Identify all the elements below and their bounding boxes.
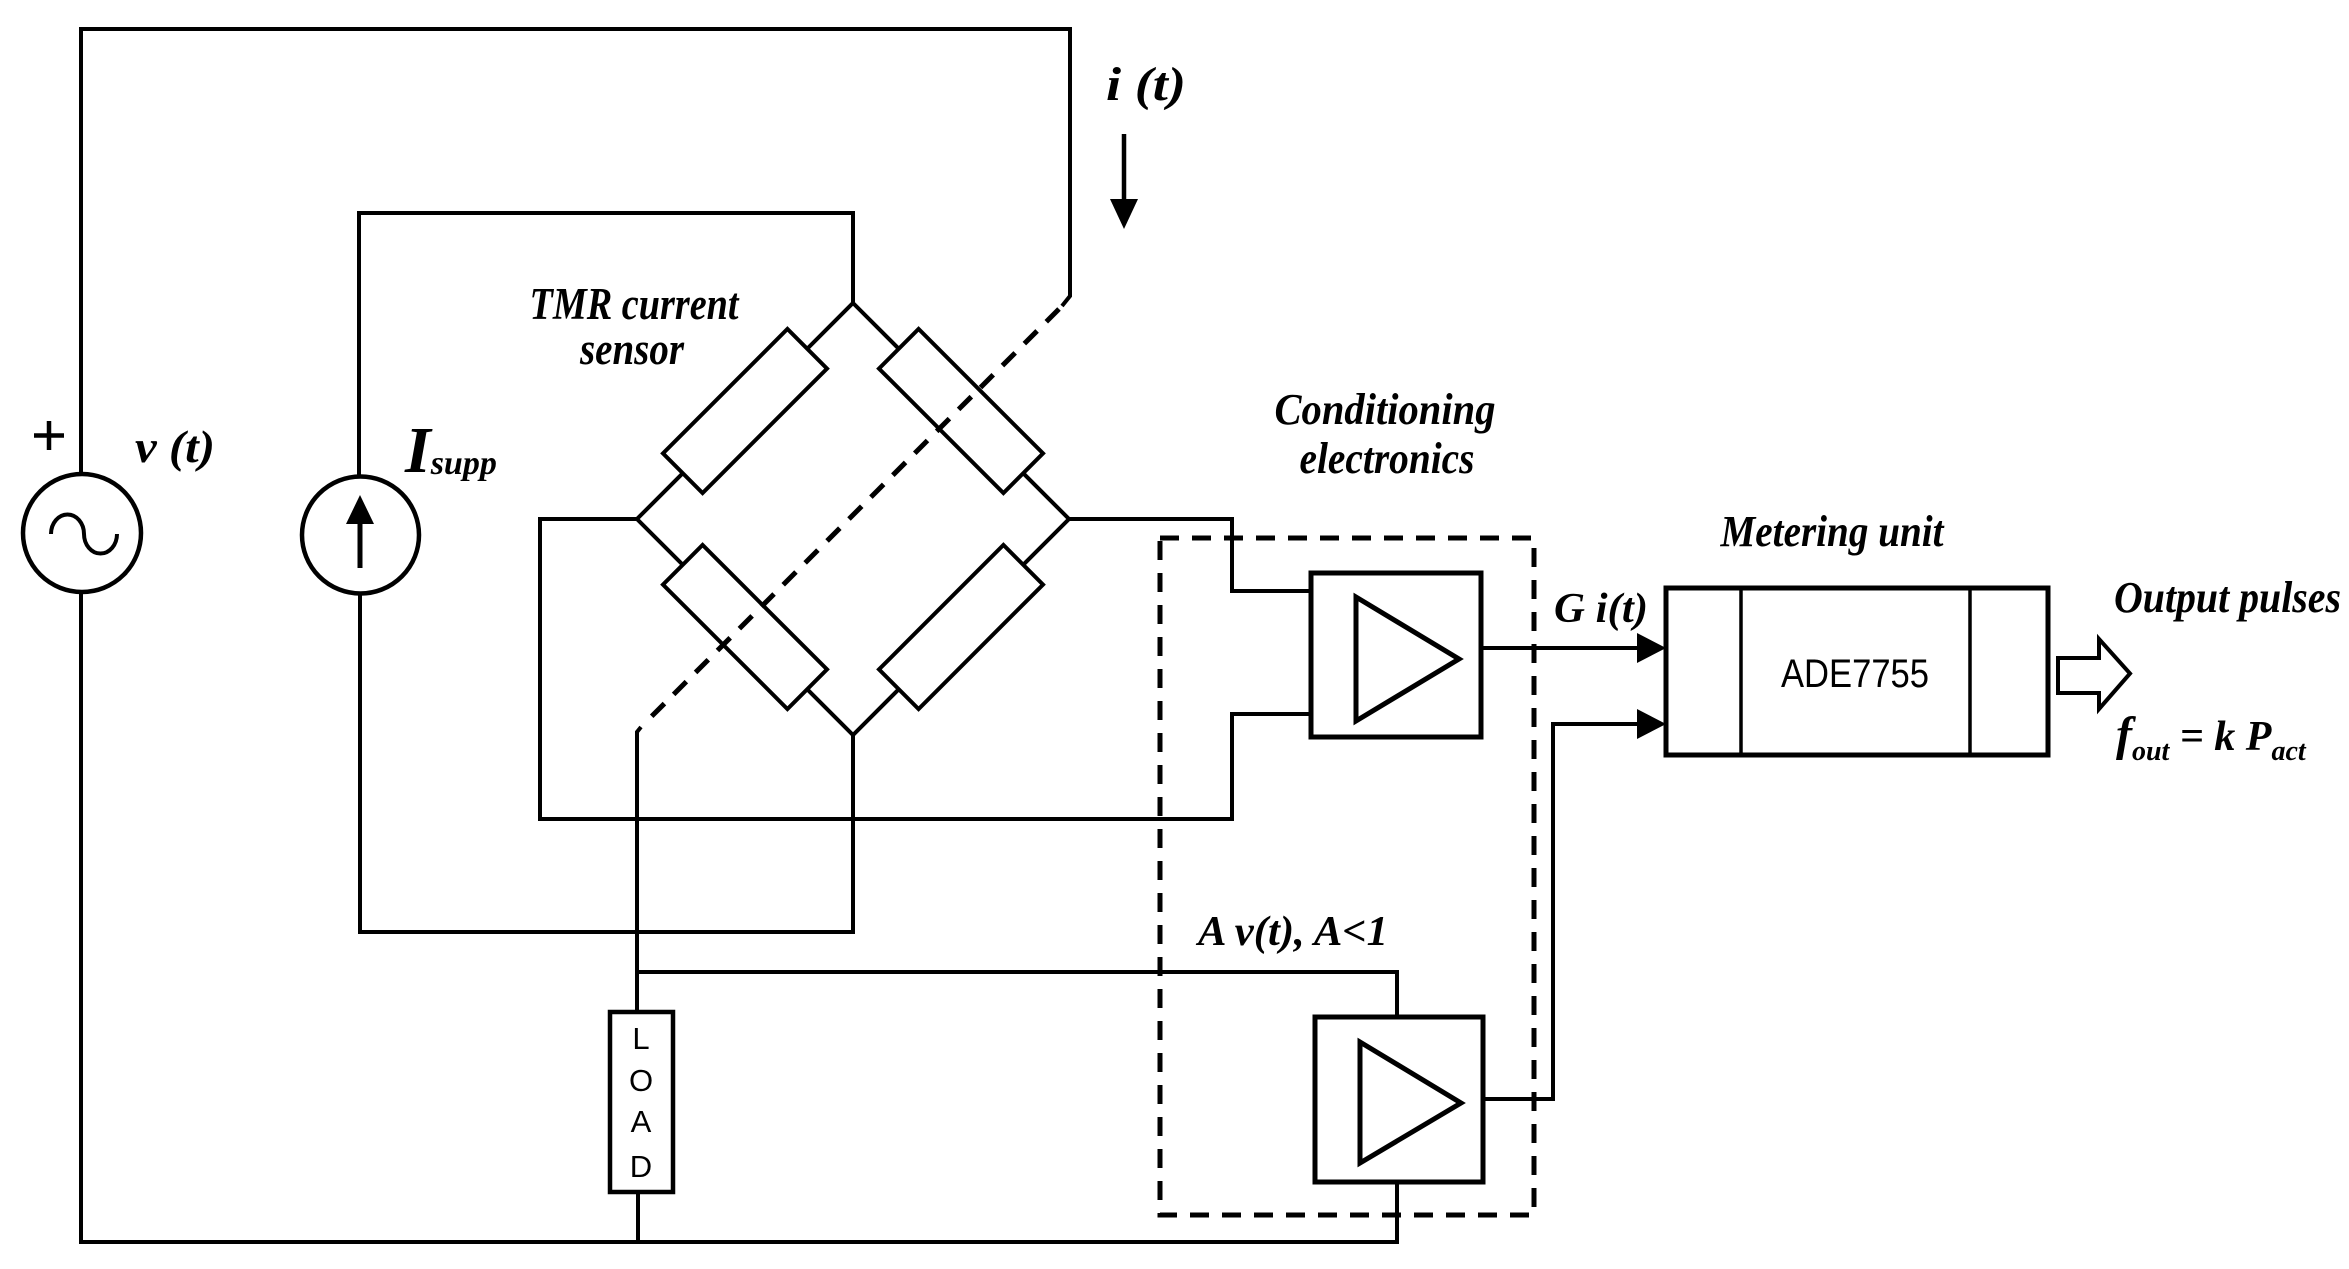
svg-text:G i(t): G i(t) — [1554, 586, 1648, 632]
resistor R4 bottom-right — [879, 545, 1043, 709]
metering unit divider right — [1968, 588, 1972, 755]
svg-text:D: D — [630, 1149, 652, 1184]
op-amp U2 voltage channel box — [1315, 1017, 1483, 1182]
svg-text:i (t): i (t) — [1106, 58, 1186, 111]
wire bridge left vertex loop — [540, 519, 1232, 819]
op-amp U1 current channel box — [1311, 573, 1481, 737]
wire bridge bottom vertex down to return — [851, 734, 855, 934]
load letters — [629, 1021, 653, 1184]
wire top horizontal from source to i(t) drop — [81, 27, 1070, 31]
metering unit outer box — [1666, 588, 2048, 755]
bridge diamond edges — [637, 303, 1069, 735]
resistor R1 top-left — [663, 329, 827, 493]
svg-text:Output pulses: Output pulses — [2114, 573, 2341, 622]
svg-text:Metering unit: Metering unit — [1720, 507, 1945, 556]
arrowhead into metering voltage input — [1637, 709, 1666, 739]
op-amp U1 triangle — [1356, 597, 1459, 721]
wire Isupp top to bridge top — [359, 213, 853, 477]
svg-text:TMR current: TMR current — [530, 279, 740, 329]
wire amp1 output G i(t) — [1481, 646, 1642, 650]
wire bottom horizontal — [79, 1240, 1397, 1244]
output block arrow — [2058, 639, 2130, 709]
wire load bottom — [636, 1192, 640, 1242]
wire below AC source — [79, 591, 83, 1244]
arrowhead into metering current input — [1637, 633, 1666, 663]
svg-text:L: L — [632, 1021, 649, 1056]
wire Isupp bottom return — [360, 592, 855, 932]
dashed box conditioning electronics — [1160, 538, 1534, 1215]
svg-text:sensor: sensor — [579, 324, 684, 374]
resistor R3 bottom-left — [663, 545, 827, 709]
dashed primary conductor through bridge — [644, 309, 1059, 724]
wire load tap A v(t) — [637, 972, 1397, 1017]
svg-text:O: O — [629, 1063, 653, 1098]
resistor R2 top-right — [879, 329, 1043, 493]
AC source V1 circle — [23, 474, 141, 592]
wire i(t) vertical drop — [1062, 27, 1070, 306]
metering unit divider left — [1739, 588, 1743, 755]
svg-text:A: A — [631, 1104, 652, 1139]
wire amp2 bottom to ground return — [1395, 1182, 1399, 1244]
svg-text:electronics: electronics — [1300, 434, 1475, 483]
arrow i(t) direction — [1110, 134, 1138, 229]
svg-text:ADE7755: ADE7755 — [1781, 652, 1929, 696]
svg-text:v (t): v (t) — [135, 421, 215, 472]
label TMR current sensor — [530, 279, 740, 374]
plus polarity mark — [34, 421, 64, 450]
wire to amp1 lower input — [1232, 714, 1311, 821]
current source Isupp circle — [302, 477, 419, 594]
wire left side from top to AC source — [79, 27, 83, 475]
current source arrow — [346, 495, 374, 568]
wire bridge right vertex to amp1 upper input — [1069, 519, 1311, 591]
AC source sine symbol — [51, 515, 117, 554]
label Conditioning electronics — [1275, 385, 1496, 483]
load element box — [610, 1012, 673, 1192]
op-amp U2 triangle — [1360, 1042, 1461, 1163]
svg-text:Conditioning: Conditioning — [1275, 385, 1496, 434]
svg-text:A v(t), A<1: A v(t), A<1 — [1195, 909, 1388, 955]
wire dashed end to load — [637, 727, 641, 1013]
wire amp2 output up to metering voltage input — [1483, 724, 1642, 1099]
